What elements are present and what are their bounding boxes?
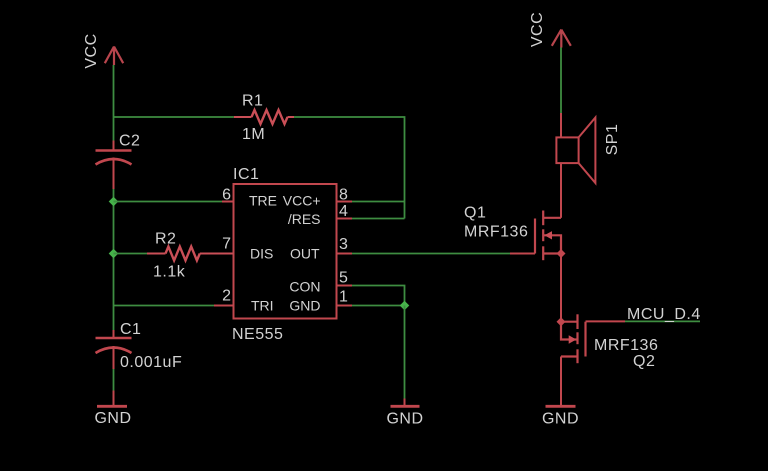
resistor R1 [234, 110, 294, 124]
svg-text:CON: CON [289, 279, 320, 295]
wire right rail to pin 4 [352, 218, 405, 220]
svg-text:IC1: IC1 [233, 166, 259, 183]
vcc symbol P1 (left VCC) [105, 47, 123, 66]
pin stub 8 [337, 201, 353, 203]
svg-text:C2: C2 [119, 133, 140, 150]
svg-text:6: 6 [222, 187, 231, 204]
svg-text:TRI: TRI [251, 297, 274, 313]
wire speaker to Q1 drain [560, 163, 562, 218]
wire Q2 gate lead [586, 320, 626, 322]
svg-text:VCC: VCC [529, 12, 546, 47]
wire left rail mid [113, 189, 115, 330]
wire to R2 [114, 253, 148, 255]
wire Q1 source to Q2 [560, 254, 562, 322]
svg-text:1M: 1M [242, 126, 265, 143]
svg-text:0.001uF: 0.001uF [120, 354, 182, 371]
wire rail to R1 [114, 116, 234, 118]
svg-text:GND: GND [94, 410, 131, 427]
svg-text:1.1k: 1.1k [153, 264, 186, 281]
transistor Q2 MRF136 [561, 314, 586, 363]
vcc symbol P2 (right VCC) [552, 30, 571, 48]
pin stub 3 [337, 253, 353, 255]
wire right rail to pin 8 [352, 201, 405, 203]
pin stub 2 [214, 305, 234, 307]
wire vcc right down [560, 48, 562, 114]
wire pin 3 to Q1 gate [352, 253, 510, 255]
resistor R2 [147, 247, 234, 261]
svg-text:Q2: Q2 [633, 353, 655, 370]
node Q1 source dot [557, 249, 566, 258]
wire to pin 6 [114, 201, 223, 203]
pin stub 4 [337, 218, 353, 220]
wire C1 to GND [113, 369, 115, 391]
svg-text:C1: C1 [120, 321, 141, 338]
wire Q2 drain to GND [560, 357, 562, 407]
svg-text:3: 3 [339, 236, 348, 253]
svg-text:7: 7 [222, 236, 231, 253]
wire speaker lead top [560, 113, 562, 137]
svg-text:NE555: NE555 [232, 326, 283, 343]
wire to pin 2 [114, 305, 215, 307]
wire net MCU_D.4 [625, 320, 700, 322]
wire vcc-left rail top [113, 65, 115, 141]
svg-text:MRF136: MRF136 [594, 337, 658, 354]
ground GND mid [391, 399, 420, 407]
svg-text:MCU_D.4: MCU_D.4 [627, 306, 701, 323]
arrow of Q1 [544, 231, 552, 239]
ground GND right [546, 405, 576, 408]
svg-text:1: 1 [339, 289, 348, 306]
svg-text:/RES: /RES [288, 211, 321, 227]
wire junction to GND mid [404, 306, 406, 399]
svg-text:VCC: VCC [83, 33, 100, 68]
svg-text:8: 8 [339, 187, 348, 204]
node junction pin1/5/gnd [400, 301, 410, 311]
svg-text:GND: GND [542, 411, 579, 428]
pin stub 1 [337, 305, 353, 307]
node Q2 source dot [557, 317, 566, 326]
svg-text:OUT: OUT [290, 245, 320, 261]
svg-text:2: 2 [222, 288, 231, 305]
pin stub 6 [222, 201, 234, 203]
svg-text:GND: GND [386, 411, 423, 428]
svg-text:GND: GND [289, 297, 320, 313]
capacitor C2 [96, 141, 132, 190]
capacitor C1 [96, 330, 132, 369]
svg-text:VCC+: VCC+ [283, 192, 321, 208]
svg-text:MRF136: MRF136 [464, 224, 528, 241]
svg-text:4: 4 [339, 203, 348, 220]
pin stub 5 [337, 285, 353, 287]
svg-text:5: 5 [339, 270, 348, 287]
svg-text:SP1: SP1 [604, 124, 621, 156]
svg-text:TRE: TRE [249, 192, 277, 208]
wire R1 to right rail [294, 117, 405, 219]
arrow of Q2 [569, 335, 577, 343]
svg-text:R1: R1 [242, 93, 263, 110]
wire pin 5 to rail [352, 286, 405, 306]
wire pin 1 to rail [352, 305, 405, 307]
node junction at pin6 branch [109, 197, 119, 207]
op-amp U1 IC box (NE555) [234, 184, 337, 319]
svg-text:DIS: DIS [250, 245, 273, 261]
node junction at R2 branch [109, 249, 119, 259]
svg-text:Q1: Q1 [464, 205, 486, 222]
transistor Q1 MRF136 [535, 211, 561, 261]
speaker SP1 [556, 118, 595, 184]
svg-text:R2: R2 [155, 231, 176, 248]
ground GND left [97, 391, 127, 407]
